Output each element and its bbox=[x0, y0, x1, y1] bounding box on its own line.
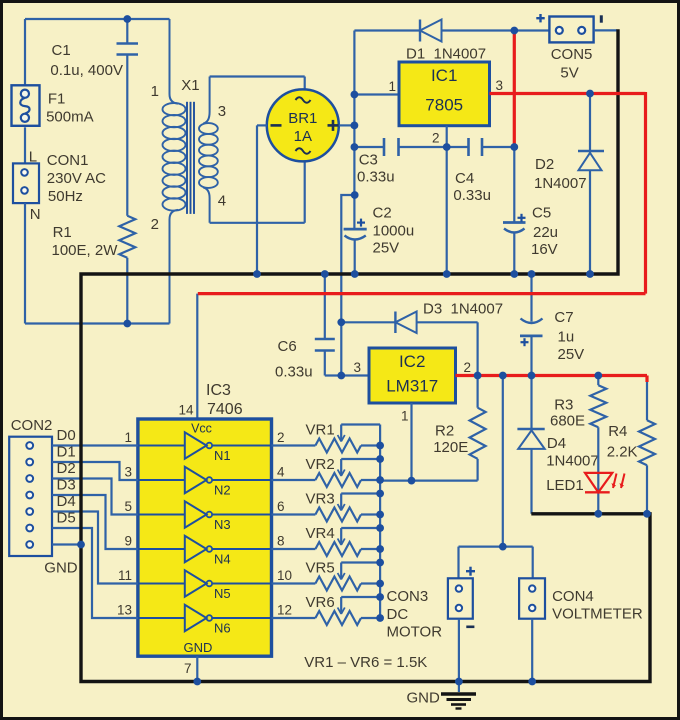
svg-text:R4: R4 bbox=[608, 423, 627, 440]
svg-text:7406: 7406 bbox=[207, 401, 243, 418]
node junction CON2 gnd bus bbox=[77, 541, 85, 549]
svg-text:16V: 16V bbox=[531, 241, 558, 258]
label D0 bbox=[57, 427, 76, 444]
label CON3 l3 bbox=[387, 624, 443, 641]
node junction rail pin1 bbox=[351, 91, 359, 99]
wire secondary bottom to BR1 bbox=[210, 161, 305, 222]
pin 3 X1 bbox=[218, 103, 226, 120]
svg-text:LED1: LED1 bbox=[546, 477, 584, 494]
svg-text:C1: C1 bbox=[52, 42, 71, 59]
svg-text:LM317: LM317 bbox=[386, 377, 438, 396]
svg-text:3: 3 bbox=[496, 78, 504, 93]
svg-text:3: 3 bbox=[218, 103, 226, 120]
svg-text:VR1 – VR6 = 1.5K: VR1 – VR6 = 1.5K bbox=[304, 654, 427, 671]
resistor R4 bbox=[639, 382, 655, 514]
inverter gate N6 bbox=[138, 605, 272, 636]
label R1 bbox=[53, 224, 72, 241]
wire CON4 to ground bbox=[531, 619, 533, 682]
node junction output feed bbox=[499, 372, 507, 380]
diode D2 bbox=[578, 94, 604, 275]
capacitor C1 bbox=[117, 19, 139, 216]
wire CON1 down-left side bbox=[25, 203, 170, 323]
wire F1 to CON1 bbox=[24, 127, 26, 163]
pin 13 IC3 bbox=[117, 603, 132, 618]
label CON5 value bbox=[560, 65, 578, 82]
resistor R1 bbox=[119, 216, 135, 324]
wire IC2 output red bbox=[456, 376, 648, 383]
diode D3 bbox=[341, 312, 477, 376]
svg-text:N6: N6 bbox=[214, 621, 231, 636]
wire D0 bbox=[52, 444, 138, 446]
pin 4 X1 bbox=[218, 193, 226, 210]
pin 3 IC3 bbox=[124, 465, 132, 480]
inverter gate N5 bbox=[138, 570, 272, 601]
ground bus junction dots bbox=[253, 270, 651, 518]
svg-text:0.1u, 400V: 0.1u, 400V bbox=[50, 62, 123, 79]
connector CON5 bbox=[549, 17, 617, 43]
wire 5V to IC3 Vcc bbox=[196, 294, 198, 419]
pin 1 IC1 bbox=[388, 79, 396, 94]
node junction pin3 bbox=[337, 372, 345, 380]
label IC3 value bbox=[207, 401, 243, 418]
wire IC2 adj bbox=[410, 403, 412, 481]
bridge rectifier BR1 bbox=[267, 89, 339, 161]
node junction CON3 gnd bbox=[455, 678, 463, 686]
label C2 bbox=[373, 204, 392, 221]
svg-text:5: 5 bbox=[124, 499, 132, 514]
label D2 value bbox=[534, 175, 587, 192]
label C6 bbox=[278, 338, 297, 355]
wire D3 bbox=[52, 495, 138, 549]
connector CON1 bbox=[13, 163, 39, 203]
svg-text:4: 4 bbox=[277, 465, 285, 480]
svg-text:4: 4 bbox=[218, 193, 226, 210]
label C7 value bbox=[558, 328, 575, 345]
label VR1 bbox=[306, 422, 335, 439]
svg-text:VR2: VR2 bbox=[306, 456, 335, 473]
label C1 bbox=[52, 42, 71, 59]
CON2 pins bbox=[26, 442, 33, 548]
node junction adj bbox=[408, 477, 416, 485]
svg-text:D0: D0 bbox=[57, 427, 76, 444]
wire IC1 pin2 to ground bus bbox=[446, 126, 448, 274]
svg-text:BR1: BR1 bbox=[288, 110, 317, 127]
svg-text:0.33u: 0.33u bbox=[453, 187, 491, 204]
label VR2 bbox=[306, 456, 335, 473]
svg-text:X1: X1 bbox=[181, 77, 199, 94]
label X1 bbox=[181, 77, 199, 94]
svg-text:D1: D1 bbox=[57, 444, 76, 461]
svg-text:C2: C2 bbox=[373, 204, 392, 221]
label R4 bbox=[608, 423, 627, 440]
pin 7 IC3 bbox=[184, 661, 192, 676]
wire rail to D1 bbox=[354, 29, 420, 31]
pin 3 IC1 bbox=[496, 78, 504, 93]
wire AC top bbox=[25, 19, 170, 86]
svg-text:GND: GND bbox=[44, 560, 78, 577]
svg-text:D4: D4 bbox=[547, 435, 566, 452]
pin 8 IC3 bbox=[277, 534, 285, 549]
svg-text:C4: C4 bbox=[455, 170, 474, 187]
label CON1 value bbox=[47, 170, 106, 187]
label F1 value bbox=[46, 109, 94, 126]
label CON4 bbox=[552, 588, 594, 605]
pin 2 IC3 bbox=[277, 430, 285, 445]
svg-text:7: 7 bbox=[184, 661, 192, 676]
svg-text:CON3: CON3 bbox=[387, 588, 429, 605]
svg-text:22u: 22u bbox=[533, 224, 558, 241]
pin 5 IC3 bbox=[124, 499, 132, 514]
pin 2 IC1 bbox=[432, 131, 440, 146]
node junction R3 top bbox=[594, 372, 602, 380]
svg-text:F1: F1 bbox=[48, 91, 66, 108]
svg-text:IC1: IC1 bbox=[431, 66, 457, 85]
svg-text:N: N bbox=[30, 206, 41, 223]
label L bbox=[29, 149, 37, 166]
wire rail jog to LM317 input bbox=[341, 195, 354, 376]
node junction D4 C7 bbox=[528, 372, 536, 380]
svg-text:500mA: 500mA bbox=[46, 109, 94, 126]
capacitor C6 bbox=[315, 274, 369, 376]
node junction pin2 C3C4 bbox=[443, 143, 451, 151]
label CON5 bbox=[551, 46, 593, 63]
wire C3 row bbox=[354, 146, 384, 148]
svg-text:C3: C3 bbox=[359, 152, 378, 169]
svg-text:IC2: IC2 bbox=[399, 352, 425, 371]
svg-text:10: 10 bbox=[277, 568, 292, 583]
label CON1 freq bbox=[48, 188, 83, 205]
label VR value bbox=[304, 654, 427, 671]
svg-text:D4: D4 bbox=[57, 493, 76, 510]
capacitor C7 bbox=[520, 274, 543, 376]
ground symbol bbox=[441, 682, 476, 709]
svg-text:N4: N4 bbox=[214, 552, 231, 567]
svg-text:9: 9 bbox=[124, 534, 132, 549]
svg-text:CON1: CON1 bbox=[47, 152, 89, 169]
label C7 bbox=[554, 309, 573, 326]
svg-text:GND: GND bbox=[184, 640, 213, 655]
pin 7 IC3 wire bbox=[196, 656, 198, 681]
node junction C1/primary top bbox=[123, 15, 131, 23]
svg-text:25V: 25V bbox=[373, 239, 400, 256]
LED LED1 bbox=[585, 473, 625, 492]
pin 9 IC3 bbox=[124, 534, 132, 549]
wire D4 bbox=[52, 512, 138, 584]
svg-text:MOTOR: MOTOR bbox=[387, 624, 443, 641]
potentiometer VR6 bbox=[272, 597, 381, 625]
ground bus black bbox=[81, 29, 650, 681]
svg-text:N3: N3 bbox=[214, 517, 231, 532]
wire D2 bbox=[52, 479, 138, 515]
svg-text:2: 2 bbox=[464, 360, 472, 375]
capacitor C3 bbox=[384, 138, 447, 156]
label R4 value bbox=[607, 444, 638, 461]
svg-text:1: 1 bbox=[401, 409, 409, 424]
svg-text:C5: C5 bbox=[532, 204, 551, 221]
regulator IC1 7805 bbox=[399, 62, 490, 126]
label LED1 bbox=[546, 477, 584, 494]
label GND bbox=[407, 690, 441, 707]
pin 6 IC3 bbox=[277, 499, 285, 514]
regulator IC2 LM317 bbox=[369, 348, 456, 403]
svg-text:12: 12 bbox=[277, 603, 292, 618]
minus mark CON3 bbox=[466, 625, 474, 628]
svg-text:3: 3 bbox=[353, 360, 361, 375]
plus mark C7 bbox=[521, 338, 529, 346]
label R3 bbox=[554, 397, 573, 414]
svg-text:VR3: VR3 bbox=[306, 491, 335, 508]
svg-text:C7: C7 bbox=[554, 309, 573, 326]
transformer X1 core bbox=[187, 102, 194, 214]
svg-text:3: 3 bbox=[124, 465, 132, 480]
resistor R3 bbox=[590, 376, 606, 514]
label VR3 bbox=[306, 491, 335, 508]
label R3 value bbox=[550, 413, 585, 430]
svg-text:N1: N1 bbox=[214, 448, 231, 463]
svg-text:2.2K: 2.2K bbox=[607, 444, 638, 461]
wire VR bus bbox=[379, 425, 381, 619]
label C3 bbox=[359, 152, 378, 169]
svg-text:13: 13 bbox=[117, 603, 132, 618]
svg-text:D3: D3 bbox=[57, 477, 76, 494]
potentiometer VR1 bbox=[272, 425, 381, 453]
plus mark C2 bbox=[357, 219, 365, 227]
label N bbox=[30, 206, 41, 223]
svg-text:8: 8 bbox=[277, 534, 285, 549]
label C2 volt bbox=[373, 239, 400, 256]
label F1 bbox=[48, 91, 66, 108]
svg-text:D1 1N4007: D1 1N4007 bbox=[406, 46, 486, 63]
svg-text:6: 6 bbox=[277, 499, 285, 514]
label D2 bbox=[535, 156, 554, 173]
svg-text:0.33u: 0.33u bbox=[357, 168, 395, 185]
svg-text:VR4: VR4 bbox=[306, 525, 335, 542]
connector CON3 bbox=[448, 578, 473, 618]
svg-text:1N4007: 1N4007 bbox=[546, 453, 599, 470]
wire 5V riser to D1 node red bbox=[513, 31, 516, 148]
pin 4 IC3 bbox=[277, 465, 285, 480]
label CON2 bbox=[11, 417, 53, 434]
label CON1 bbox=[47, 152, 89, 169]
pin 12 IC3 bbox=[277, 603, 292, 618]
node junction R1 bottom bbox=[123, 320, 131, 328]
plus mark CON3 bbox=[466, 567, 475, 576]
fuse F1 bbox=[12, 85, 40, 126]
wire 5V right side down red bbox=[198, 92, 646, 294]
svg-text:680E: 680E bbox=[550, 413, 585, 430]
svg-text:1: 1 bbox=[151, 83, 159, 100]
resistor R2 bbox=[380, 376, 486, 481]
svg-text:N2: N2 bbox=[214, 483, 231, 498]
node junction D2 5V bbox=[586, 90, 594, 98]
transformer X1 secondary winding bbox=[199, 77, 218, 223]
inverter gate N1 bbox=[138, 432, 272, 463]
label R2 value bbox=[433, 439, 468, 456]
wire motor split bbox=[459, 547, 533, 579]
potentiometer VR5 bbox=[272, 563, 381, 591]
label D3 bbox=[423, 301, 503, 318]
transformer X1 primary winding bbox=[163, 19, 186, 324]
label R1 value bbox=[52, 242, 119, 259]
svg-text:D2: D2 bbox=[57, 460, 76, 477]
svg-text:0.33u: 0.33u bbox=[275, 364, 313, 381]
label C1 value bbox=[50, 62, 123, 79]
wire secondary top to BR1 bbox=[210, 77, 305, 90]
label C6 value bbox=[275, 364, 313, 381]
node junction D3 input bbox=[337, 318, 345, 326]
svg-text:50Hz: 50Hz bbox=[48, 188, 83, 205]
node junction rail jog bbox=[351, 191, 359, 199]
svg-text:100E, 2W: 100E, 2W bbox=[52, 242, 119, 259]
connector CON4 bbox=[519, 578, 545, 618]
node junction motor split bbox=[499, 543, 507, 551]
capacitor C2 bbox=[344, 229, 367, 274]
label IC3 bbox=[206, 382, 231, 399]
svg-text:CON4: CON4 bbox=[552, 588, 594, 605]
node junction R2 top bbox=[474, 372, 482, 380]
svg-text:2: 2 bbox=[151, 216, 159, 233]
node junction C4 C5 bbox=[510, 143, 518, 151]
label C4 bbox=[455, 170, 474, 187]
pin 1 IC3 bbox=[124, 430, 132, 445]
capacitor C5 bbox=[503, 147, 526, 274]
label CON2 GND bbox=[44, 560, 78, 577]
svg-text:C6: C6 bbox=[278, 338, 297, 355]
svg-text:1: 1 bbox=[388, 79, 396, 94]
potentiometer VR3 bbox=[272, 494, 381, 522]
svg-text:1000u: 1000u bbox=[373, 223, 415, 240]
wire rail to IC1 pin1 bbox=[354, 93, 399, 95]
label C2 value bbox=[373, 223, 415, 240]
potentiometer VR4 bbox=[272, 528, 381, 556]
label C3 value bbox=[357, 168, 395, 185]
svg-text:1A: 1A bbox=[294, 128, 312, 145]
label D5 bbox=[57, 510, 76, 527]
svg-text:VR5: VR5 bbox=[306, 560, 335, 577]
label D3 bbox=[57, 477, 76, 494]
label D4 bbox=[547, 435, 566, 452]
svg-text:D3 1N4007: D3 1N4007 bbox=[423, 301, 503, 318]
pin 1 IC2 bbox=[401, 409, 409, 424]
wire D5 bbox=[52, 528, 138, 618]
pin 11 IC3 bbox=[118, 568, 132, 583]
svg-text:VOLTMETER: VOLTMETER bbox=[552, 606, 643, 623]
wire BR1 plus rail bbox=[339, 31, 355, 230]
label D4 value bbox=[546, 453, 599, 470]
svg-text:120E: 120E bbox=[433, 439, 468, 456]
pin 3 IC2 bbox=[353, 360, 361, 375]
svg-text:N5: N5 bbox=[214, 586, 231, 601]
inverter gate N4 bbox=[138, 536, 272, 567]
svg-text:Vcc: Vcc bbox=[191, 421, 212, 435]
svg-text:R3: R3 bbox=[554, 397, 573, 414]
node junction CON4 gnd bbox=[528, 678, 536, 686]
label CON4 l2 bbox=[552, 606, 643, 623]
wire 5V IC1 pin3 red bbox=[490, 92, 646, 95]
svg-text:D2: D2 bbox=[535, 156, 554, 173]
label VR5 bbox=[306, 560, 335, 577]
inverter IC3 box bbox=[138, 419, 272, 656]
plus mark C5 bbox=[518, 214, 526, 222]
label CON3 l2 bbox=[387, 606, 409, 623]
svg-text:VR6: VR6 bbox=[306, 594, 335, 611]
svg-text:11: 11 bbox=[118, 568, 132, 583]
pin 2 IC2 bbox=[464, 360, 472, 375]
plus mark CON5 bbox=[536, 14, 544, 22]
svg-text:R2: R2 bbox=[435, 423, 454, 440]
svg-text:GND: GND bbox=[407, 690, 441, 707]
wire output to motor node bbox=[502, 376, 504, 547]
svg-text:D5: D5 bbox=[57, 510, 76, 527]
wire D1 bbox=[52, 462, 138, 480]
svg-text:230V AC: 230V AC bbox=[47, 170, 106, 187]
label D1 bbox=[57, 444, 76, 461]
node junction D1/CON5/5V bbox=[510, 27, 518, 35]
svg-text:1N4007: 1N4007 bbox=[534, 175, 587, 192]
svg-text:1: 1 bbox=[124, 430, 132, 445]
label D4 bbox=[57, 493, 76, 510]
node junction rail C3 bbox=[351, 143, 359, 151]
svg-text:14: 14 bbox=[178, 403, 194, 418]
label R2 bbox=[435, 423, 454, 440]
node VR bus junctions bbox=[376, 442, 384, 622]
potentiometer VR2 bbox=[272, 459, 381, 487]
wire CON2 GND bbox=[52, 543, 81, 545]
svg-text:1u: 1u bbox=[558, 328, 575, 345]
svg-text:2: 2 bbox=[432, 131, 440, 146]
connector CON2 bbox=[9, 437, 52, 556]
svg-text:CON2: CON2 bbox=[11, 417, 53, 434]
inverter gate N2 bbox=[138, 467, 272, 498]
label VR4 bbox=[306, 525, 335, 542]
label D1 bbox=[406, 46, 486, 63]
diode D4 bbox=[517, 376, 544, 514]
inverter gate N3 bbox=[138, 501, 272, 532]
label C4 value bbox=[453, 187, 491, 204]
node junction pin7 ground bbox=[193, 678, 201, 686]
svg-text:CON5: CON5 bbox=[551, 46, 593, 63]
svg-text:DC: DC bbox=[387, 606, 409, 623]
pin 14 IC3 bbox=[178, 403, 194, 418]
svg-text:VR1: VR1 bbox=[306, 422, 335, 439]
pin 2 X1 bbox=[151, 216, 159, 233]
wire CON3 to ground bbox=[458, 619, 460, 682]
wire BR1 minus to ground bus bbox=[257, 125, 267, 274]
pin 10 IC3 bbox=[277, 568, 292, 583]
svg-text:25V: 25V bbox=[558, 346, 585, 363]
capacitor C4 bbox=[447, 138, 515, 156]
label C5 value bbox=[533, 224, 558, 241]
svg-text:IC3: IC3 bbox=[206, 382, 231, 399]
diode D1 bbox=[420, 20, 549, 42]
pin 1 X1 bbox=[151, 83, 159, 100]
label D2 bbox=[57, 460, 76, 477]
label C5 volt bbox=[531, 241, 558, 258]
node BR1 plus junction bbox=[351, 122, 359, 130]
svg-text:R1: R1 bbox=[53, 224, 72, 241]
svg-text:2: 2 bbox=[277, 430, 285, 445]
label CON3 bbox=[387, 588, 429, 605]
label C5 bbox=[532, 204, 551, 221]
minus-I mark CON5 bbox=[600, 15, 603, 22]
label C7 volt bbox=[558, 346, 585, 363]
label VR6 bbox=[306, 594, 335, 611]
svg-text:7805: 7805 bbox=[425, 96, 463, 115]
svg-text:5V: 5V bbox=[560, 65, 578, 82]
